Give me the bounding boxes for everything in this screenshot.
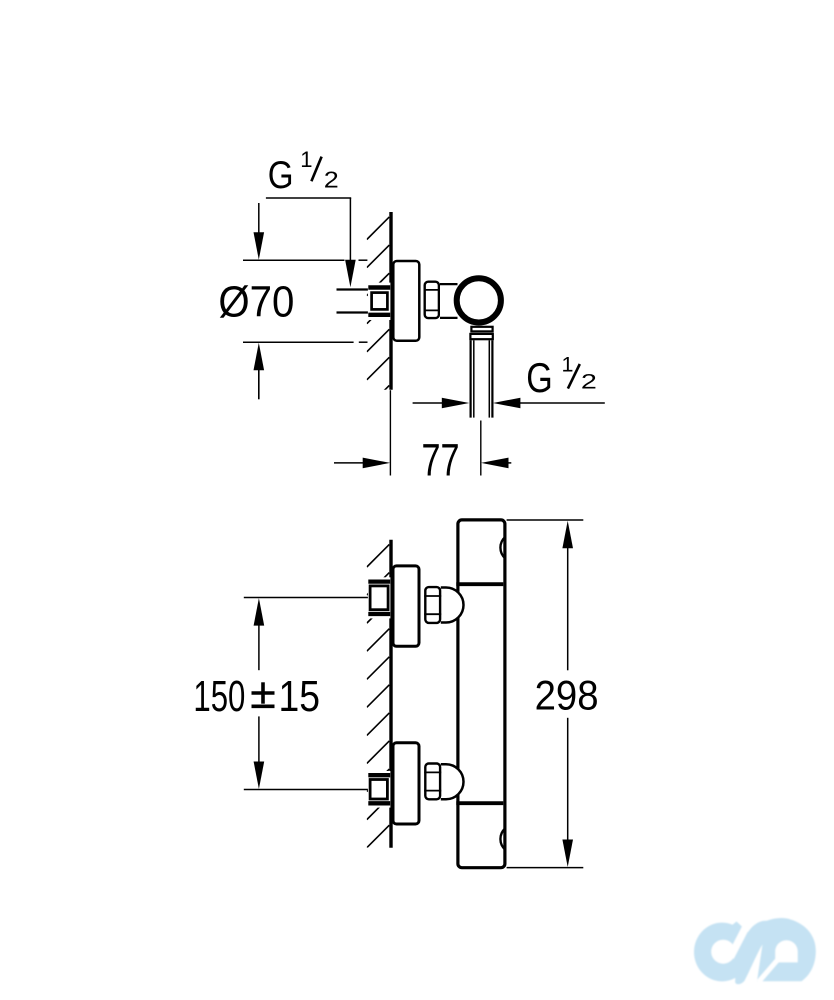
svg-text:Ø70: Ø70 [218,278,294,327]
svg-text:1: 1 [300,147,312,172]
svg-text:G: G [526,354,553,401]
svg-text:1: 1 [562,352,574,376]
svg-text:G: G [268,154,294,197]
svg-text:150: 150 [193,672,245,721]
svg-text:2: 2 [581,370,597,394]
svg-text:15: 15 [279,672,321,721]
svg-text:298: 298 [535,671,599,718]
svg-text:77: 77 [422,435,460,486]
svg-text:2: 2 [324,167,339,193]
